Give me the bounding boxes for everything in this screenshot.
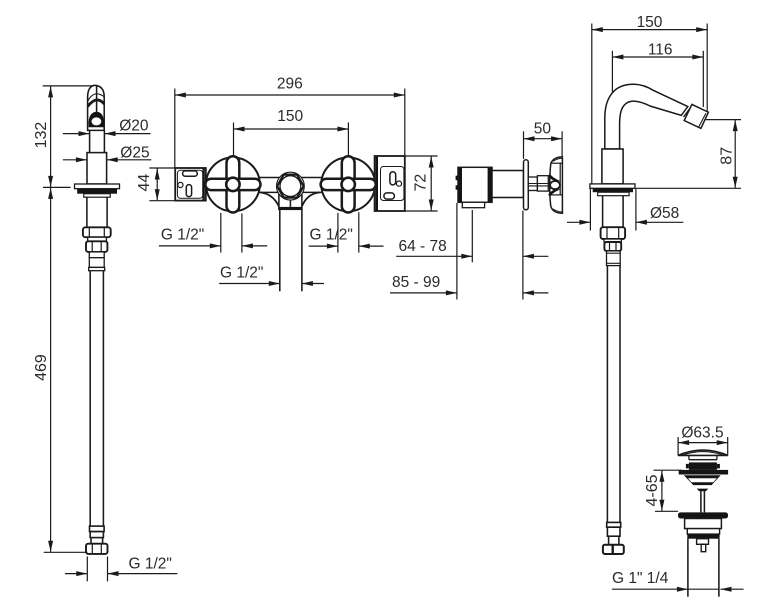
dimension Ø20 leader (63, 133, 151, 135)
hose collar (89, 252, 105, 271)
dimension Ø58 (567, 189, 683, 231)
svg-text:469: 469 (33, 354, 50, 381)
hose end fitting (bidet) (603, 522, 624, 554)
drain body (685, 519, 722, 539)
spout nozzle (684, 104, 708, 128)
svg-text:Ø20: Ø20 (119, 118, 149, 135)
valve cartridge (side view) (492, 171, 524, 198)
svg-text:150: 150 (277, 108, 303, 125)
hand shower head (88, 85, 105, 130)
svg-text:132: 132 (33, 122, 50, 149)
faucet body (front view) (206, 178, 375, 207)
dimension 64-78 (396, 255, 548, 257)
wall plate right (375, 156, 405, 211)
svg-text:Ø25: Ø25 (120, 144, 149, 161)
spout aerator band (684, 108, 691, 117)
svg-text:4-65: 4-65 (644, 474, 661, 506)
dimension 4-65 (654, 470, 682, 511)
hand shower neck tube Ø20 (90, 130, 105, 152)
dimension 150 (bidet) (592, 24, 707, 184)
escutcheon plate (side view) (524, 160, 529, 210)
svg-text:44: 44 (136, 174, 153, 192)
dimension 50 (524, 131, 563, 159)
handle stem (side view) (528, 176, 548, 191)
dimension 296 (175, 89, 405, 168)
drain upper block (686, 462, 720, 470)
bidet body collar (602, 149, 623, 184)
svg-text:150: 150 (637, 14, 663, 31)
svg-text:Ø58: Ø58 (650, 205, 679, 222)
drain cone (684, 475, 721, 491)
svg-text:G 1/2": G 1/2" (161, 227, 204, 244)
svg-text:50: 50 (534, 120, 552, 137)
drain cap rim (689, 455, 717, 459)
bidet shank tube (603, 196, 624, 228)
spout connection box (278, 195, 302, 210)
dimension G 1/2 (hose end, left) (65, 557, 177, 582)
svg-text:G 1/2": G 1/2" (310, 227, 353, 244)
drain lower flange (678, 512, 728, 518)
dimension 85-99 (390, 292, 548, 294)
dimension G 1/2 right handle (309, 212, 384, 252)
bidet hose collar (607, 251, 621, 266)
centre union rings (277, 172, 305, 200)
drain seal band (679, 470, 728, 475)
bidet flange (590, 184, 635, 196)
svg-text:Ø63.5: Ø63.5 (681, 425, 723, 442)
flexible hose (bidet) (607, 266, 620, 523)
svg-text:116: 116 (648, 42, 673, 59)
dimension 469 (44, 188, 88, 552)
dimension Ø63.5 (678, 437, 728, 456)
hose nut step (88, 237, 107, 241)
svg-text:72: 72 (413, 174, 430, 192)
bidet nut step (604, 239, 621, 242)
dimension 116 (bidet) (612, 51, 703, 149)
cross handle left (front) (205, 156, 260, 212)
hose end fitting (left) (86, 526, 108, 554)
drain pull rod (701, 491, 705, 512)
svg-text:G 1" 1/4: G 1" 1/4 (612, 570, 669, 587)
svg-text:G 1/2": G 1/2" (129, 556, 172, 573)
dimension G 1/2 left handle (159, 213, 267, 253)
dimension G 1 1/4 (612, 588, 744, 590)
cross handle right (front) (321, 156, 376, 212)
dimension G 1/2 centre pipe (219, 283, 324, 285)
hose nut (small hex) (86, 241, 107, 252)
hand shower lower body Ø25 (87, 153, 107, 184)
side view extension lines (457, 203, 523, 300)
svg-text:85 - 99: 85 - 99 (392, 274, 440, 291)
drain tailpipe (688, 539, 719, 597)
flexible hose (left) (90, 271, 103, 526)
hose nut (large hex) (83, 227, 111, 237)
cross handle (side view) (548, 157, 562, 213)
wall plate left (175, 168, 206, 201)
hand shower base flange (75, 184, 120, 197)
drain dome cap (678, 450, 728, 455)
dimension 150 (handle centres) (234, 123, 349, 156)
bidet spout (605, 84, 688, 149)
bidet hose nut (large hex) (601, 227, 626, 239)
down pipe (280, 210, 302, 292)
dimension Ø25 leader (63, 159, 151, 161)
bidet hose nut (small hex) (604, 242, 621, 251)
svg-text:87: 87 (719, 147, 736, 165)
svg-text:G 1/2": G 1/2" (220, 265, 263, 282)
dimension 87 (635, 120, 741, 189)
dimension 132 (43, 86, 94, 187)
svg-text:64 - 78: 64 - 78 (399, 238, 447, 255)
hand shower shank tube (87, 197, 107, 227)
drain chain pin (697, 539, 709, 552)
dimension 72 (405, 156, 438, 211)
dimension 44 (149, 168, 175, 201)
svg-text:296: 296 (277, 75, 303, 92)
valve body (side view) (456, 167, 492, 207)
